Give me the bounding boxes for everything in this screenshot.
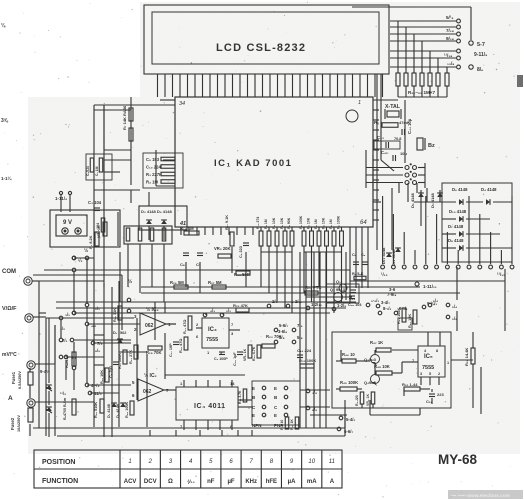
svg-text:µF: µF <box>227 479 234 485</box>
svg-text:Ω: Ω <box>168 479 173 485</box>
svg-text:mA: mA <box>307 479 317 485</box>
svg-text:1: 1 <box>128 459 131 465</box>
svg-text:µA: µA <box>288 479 296 485</box>
svg-text:3⅝: 3⅝ <box>1 118 9 124</box>
svg-text:⋅)/₁₀: ⋅)/₁₀ <box>187 479 195 484</box>
svg-text:2: 2 <box>148 459 153 465</box>
svg-text:▪▪▪ ▪▪▪▪▪ www.elecfans.com: ▪▪▪ ▪▪▪▪▪ www.elecfans.com <box>451 493 510 499</box>
svg-text:DCV: DCV <box>144 479 157 485</box>
svg-text:1-1¼: 1-1¼ <box>1 175 13 181</box>
svg-text:COM: COM <box>2 269 16 275</box>
svg-text:hFE: hFE <box>266 479 277 485</box>
svg-text:Fuse2: Fuse2 <box>10 417 15 430</box>
svg-text:POSITION: POSITION <box>42 459 75 466</box>
svg-text:10A/250V: 10A/250V <box>17 415 21 432</box>
svg-text:MY-68: MY-68 <box>438 452 478 467</box>
svg-text:11: 11 <box>329 459 335 465</box>
svg-text:mV/°C: mV/°C <box>2 352 17 358</box>
svg-text:KHz: KHz <box>245 479 257 485</box>
svg-text:A: A <box>8 395 13 402</box>
svg-text:FUNCTION: FUNCTION <box>42 478 78 485</box>
svg-text:Fuse1: Fuse1 <box>11 371 16 384</box>
svg-text:0.5A/250V: 0.5A/250V <box>18 371 22 389</box>
svg-text:nF: nF <box>207 479 215 485</box>
svg-text:V/Ω/F: V/Ω/F <box>2 306 17 312</box>
svg-text:ACV: ACV <box>124 479 137 485</box>
svg-text:10: 10 <box>308 459 315 465</box>
svg-text:A: A <box>330 479 335 485</box>
